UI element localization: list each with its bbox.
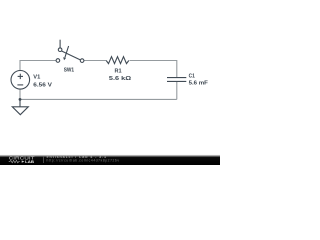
resistor R1 (106, 57, 129, 64)
footer separator (42, 157, 44, 163)
voltage source V1 (11, 71, 30, 90)
svg-text:http://circuitlab.com/c44d7k8p: http://circuitlab.com/c44d7k8p2726v (47, 158, 120, 162)
wire: switch right terminal to resistor R1 (84, 60, 106, 62)
logo resistor zigzag (9, 160, 20, 162)
wire: bottom rail (20, 98, 177, 100)
junction node (V1 bottom / ground) (19, 98, 22, 101)
switch SW1 top terminal (58, 48, 62, 52)
wire top-left: V1 top lead to switch left terminal (20, 61, 56, 71)
switch SW1 right terminal (80, 59, 84, 63)
ground (12, 99, 28, 114)
switch SW1 left terminal (56, 59, 60, 63)
svg-text:V1: V1 (33, 74, 40, 80)
footer watermark bar (0, 155, 220, 165)
switch SW1 (56, 40, 84, 63)
switch SW1 top throw stub (59, 40, 61, 48)
switch SW1 actuator arrow shaft (65, 46, 69, 57)
switch SW1 arrowhead (63, 57, 66, 60)
capacitor C1 (167, 78, 186, 82)
svg-text:5.6 mF: 5.6 mF (189, 80, 208, 86)
svg-text:C1: C1 (189, 74, 195, 80)
svg-text:R1: R1 (115, 69, 122, 75)
logo arrow (22, 160, 25, 162)
wire: V1 bottom lead (19, 89, 21, 100)
wire: resistor R1 to top-right corner and down to C1 (130, 61, 177, 78)
svg-text:SW1: SW1 (64, 67, 75, 73)
wire: C1 bottom lead down to bottom rail (176, 81, 178, 99)
svg-text:5.6 kΩ: 5.6 kΩ (109, 76, 131, 82)
switch SW1 arm (62, 51, 81, 60)
svg-text:LAB: LAB (25, 159, 34, 164)
svg-text:6.56 V: 6.56 V (33, 83, 52, 89)
